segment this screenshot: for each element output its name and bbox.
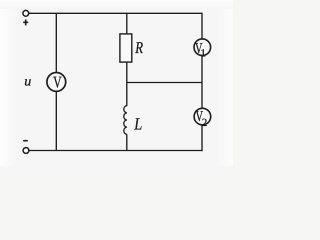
wire L to bottom rail xyxy=(126,134,128,150)
wire bottom rail xyxy=(29,150,203,152)
wire right branch bottom xyxy=(201,125,203,151)
inductor L xyxy=(124,106,127,135)
svg-text:V: V xyxy=(53,73,62,92)
wire left branch lower xyxy=(55,91,57,150)
label V1 xyxy=(195,41,206,60)
terminal - (bottom left) xyxy=(23,148,29,154)
wire R branch top xyxy=(126,13,128,34)
label + xyxy=(23,19,28,25)
voltmeter V2 xyxy=(194,108,211,125)
resistor R xyxy=(120,34,132,62)
svg-text:L: L xyxy=(133,114,142,133)
terminal + (top left) xyxy=(23,10,29,16)
voltmeter V xyxy=(47,73,66,92)
wire middle xyxy=(127,82,202,84)
svg-text:R: R xyxy=(135,38,144,57)
wire top rail xyxy=(29,12,202,14)
svg-text:1: 1 xyxy=(200,48,206,60)
label V2 xyxy=(196,109,208,129)
svg-text:u: u xyxy=(24,74,31,89)
wire right branch middle xyxy=(201,56,203,109)
wire left branch upper xyxy=(55,13,57,72)
label - xyxy=(23,140,28,142)
wire right branch top xyxy=(201,13,203,39)
voltmeter V1 xyxy=(194,39,211,56)
wire R to junction xyxy=(126,62,128,106)
